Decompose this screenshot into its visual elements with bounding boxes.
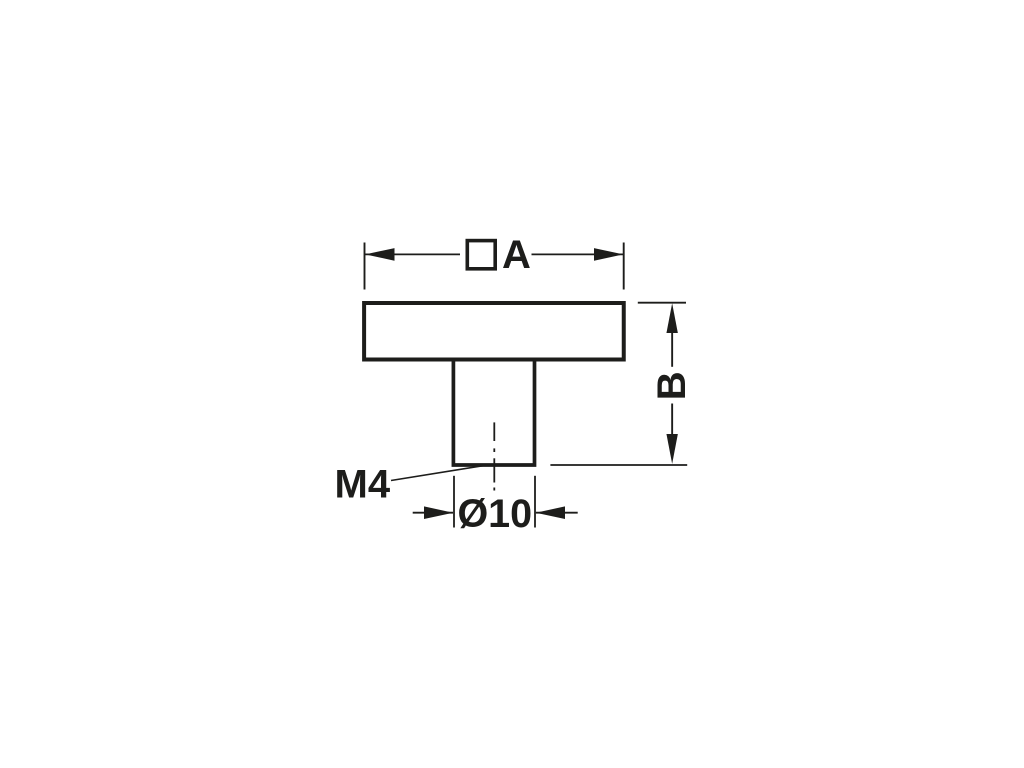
dimension B arrow up (666, 303, 677, 333)
svg-text:B: B (650, 371, 694, 400)
dimension B arrow down (666, 434, 677, 464)
dimension A extension line right (623, 243, 625, 290)
dimension D10 line right tail (536, 512, 578, 514)
svg-text:Ø10: Ø10 (457, 492, 532, 536)
dimension D10 line left tail (413, 512, 453, 514)
centerline (493, 422, 495, 490)
dimension A arrow left (365, 248, 394, 261)
dimension A extension line left (364, 243, 366, 290)
dimension D10 arrow pointing left (536, 506, 565, 519)
svg-text:A: A (502, 233, 531, 277)
dimension A arrow right (594, 248, 623, 261)
dimension A line left segment (365, 253, 460, 255)
dimension B extension line top (638, 302, 686, 304)
knob stem outline (453, 361, 534, 466)
dimension B line upper segment (671, 331, 673, 367)
square-section symbol (467, 241, 495, 269)
dimension B line lower segment (671, 404, 673, 435)
leader line from M4 (391, 465, 489, 481)
dimension A line right segment (532, 253, 624, 255)
dimension D10 arrow pointing right (424, 506, 453, 519)
svg-text:M4: M4 (335, 462, 391, 506)
knob head outline (364, 303, 624, 360)
dimension D10 extension line left (453, 476, 455, 528)
dimension B extension line bottom (550, 464, 687, 466)
dimension D10 extension line right (534, 476, 536, 528)
